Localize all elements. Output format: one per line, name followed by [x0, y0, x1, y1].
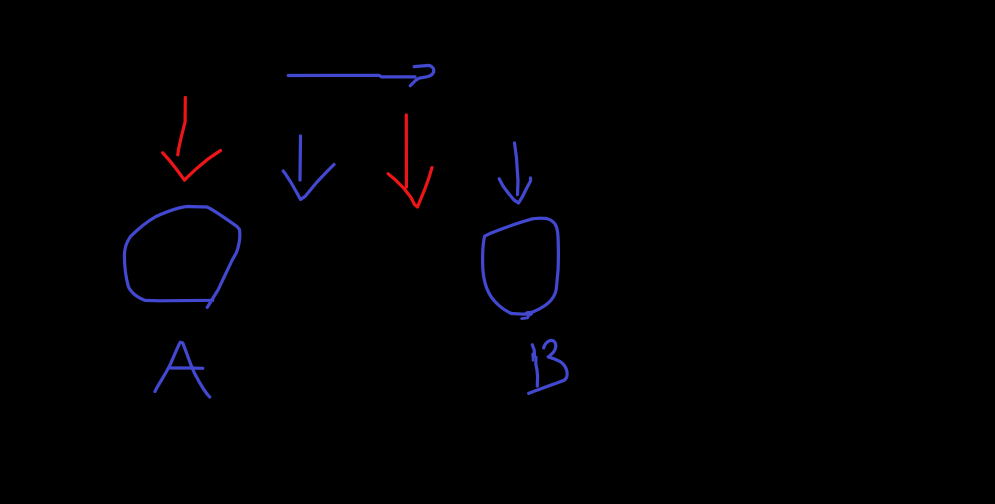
- horizontal blue arrow (top): [288, 65, 433, 85]
- red arrow 2 (middle, pointing down): [388, 115, 432, 207]
- label A (letter under left blob): [155, 342, 210, 397]
- red arrow 1 (left, pointing down): [163, 98, 221, 181]
- label B (letter under right blob): [529, 340, 567, 393]
- blob B bottom hook: [522, 316, 529, 319]
- blue arrow 1 (middle-left, pointing down): [283, 136, 334, 200]
- blob A (left ellipse-like loop): [124, 207, 239, 308]
- blue arrow 2 (right, pointing down): [499, 143, 530, 203]
- blob B (right rounded-rect loop): [483, 218, 559, 318]
